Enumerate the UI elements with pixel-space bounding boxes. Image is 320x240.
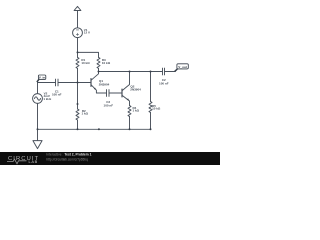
svg-text:V_in: V_in [39, 76, 46, 80]
svg-text:http://circuitlab.com/c/7p65bq: http://circuitlab.com/c/7p65bq [46, 157, 88, 161]
svg-text:1 kΩ: 1 kΩ [133, 109, 140, 113]
svg-text:10 kΩ: 10 kΩ [102, 61, 111, 65]
svg-text:1 kHz: 1 kHz [43, 97, 51, 101]
svg-text:2N3904: 2N3904 [130, 88, 141, 92]
svg-text:LAB: LAB [29, 159, 38, 164]
svg-text:100 nF: 100 nF [104, 103, 114, 107]
svg-text:V_out: V_out [178, 65, 187, 69]
svg-text:1 kΩ: 1 kΩ [82, 111, 89, 115]
svg-text:Interactive : Test 2, Problem: Interactive : Test 2, Problem 1 [46, 153, 91, 157]
svg-text:10 kΩ: 10 kΩ [81, 61, 90, 65]
svg-text:100 nF: 100 nF [159, 82, 169, 86]
svg-text:2N3904: 2N3904 [99, 82, 110, 86]
svg-text:12 V: 12 V [84, 30, 90, 34]
svg-text:10 kΩ: 10 kΩ [152, 107, 161, 111]
svg-text:100 nF: 100 nF [52, 92, 62, 96]
